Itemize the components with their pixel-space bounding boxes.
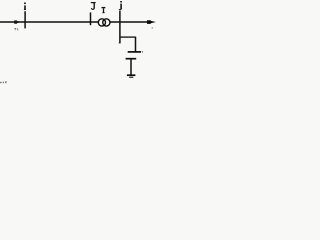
- speck at right end of top plate: [142, 51, 143, 52]
- faint speck under right arrow: [151, 27, 153, 29]
- arrowhead left (power flow into bus i): [14, 20, 21, 23]
- background: [0, 0, 174, 85]
- label j: [119, 1, 122, 10]
- wire: main horizontal line from left edge to right arrow: [0, 21, 148, 23]
- node label small scribble under left arrow: [14, 28, 18, 30]
- arrowhead right (power flow out of bus j): [147, 20, 156, 24]
- node J tick (intermediate node): [90, 12, 92, 25]
- label J: [91, 2, 96, 10]
- bus j bottom serif: [119, 42, 121, 44]
- ground bar 1: [127, 74, 135, 76]
- capacitor bottom plate: [126, 58, 137, 60]
- label i: [24, 3, 26, 10]
- bus i (vertical bus bar): [24, 11, 26, 28]
- capacitor top plate: [128, 51, 141, 53]
- wire: lead from bottom plate down to ground: [130, 59, 132, 74]
- ground bar 2: [129, 76, 133, 78]
- wire: shunt vertical down to capacitor: [135, 37, 137, 52]
- cropped text fragment bottom-left margin: [0, 81, 7, 83]
- bus j (vertical bus bar, extends below line to shunt tap): [119, 11, 121, 44]
- transformer T (two overlapping circles): [98, 18, 110, 26]
- label T: [102, 7, 106, 13]
- wire: shunt tap horizontal from bus j: [120, 36, 136, 38]
